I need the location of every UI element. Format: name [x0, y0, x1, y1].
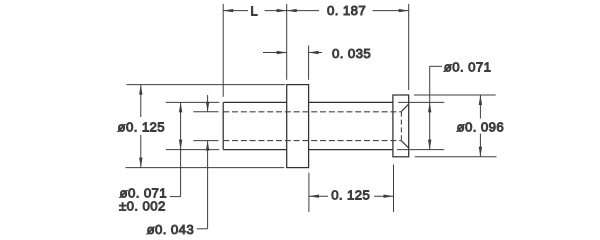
- wire: cap top extension line: [414, 94, 496, 96]
- node dimension 0.035: [263, 46, 371, 80]
- wire: bottom right extension line (cap left face): [393, 165, 395, 212]
- wire: flange bottom extension line: [126, 167, 285, 169]
- svg-text:ø0. 071: ø0. 071: [444, 59, 492, 74]
- svg-text:0. 035: 0. 035: [332, 46, 371, 61]
- wire: left barrel outline: [223, 102, 287, 149]
- svg-text:±0. 002: ±0. 002: [119, 198, 166, 213]
- wire: flange top extension line: [127, 84, 286, 86]
- wire: cap bottom extension line: [415, 156, 497, 158]
- node right cap rectangle: [393, 95, 409, 157]
- node flange rectangle: [287, 85, 309, 168]
- wire: extension line cap right face: [408, 4, 410, 90]
- wire: extension line flange left face: [286, 4, 288, 80]
- node dimension dia 0.043 with leader: [147, 95, 210, 237]
- wire: barrel bottom extension stub: [166, 149, 219, 151]
- node dimension dia 0.125 left: [118, 85, 166, 168]
- svg-text:ø0. 043: ø0. 043: [147, 222, 195, 237]
- svg-text:0. 187: 0. 187: [327, 3, 366, 18]
- wire: funnel chamfer top diagonal: [401, 104, 408, 112]
- wire: extension line left of L: [222, 4, 224, 97]
- svg-text:L: L: [250, 3, 258, 18]
- wire: hidden hole bottom dashed: [223, 140, 401, 142]
- svg-text:ø0. 125: ø0. 125: [118, 120, 166, 135]
- wire: hole top extension stub: [193, 111, 218, 113]
- wire: barrel top extension stub: [166, 101, 219, 103]
- svg-text:ø0. 096: ø0. 096: [457, 119, 505, 134]
- wire: hidden hole top dashed: [223, 111, 401, 113]
- node dimension L: [223, 3, 287, 18]
- node dimension 0.187: [287, 3, 409, 18]
- node dimension dia 0.096 right: [457, 95, 505, 157]
- wire: funnel base hidden dashed: [400, 112, 402, 141]
- wire: shaft outline: [309, 102, 393, 149]
- wire: funnel chamfer bottom diagonal: [401, 141, 408, 148]
- wire: shaft bottom extension line: [397, 149, 444, 151]
- node dimension dia 0.071 right with leader: [428, 59, 491, 149]
- svg-text:0. 125: 0. 125: [331, 188, 370, 203]
- wire: hole bottom extension stub: [193, 140, 218, 142]
- wire: bottom left extension line (flange right face): [308, 173, 310, 212]
- node dimension 0.125 bottom: [309, 188, 394, 203]
- node dimension dia 0.071 left with leader: [119, 102, 182, 213]
- wire: shaft top extension line: [398, 101, 444, 103]
